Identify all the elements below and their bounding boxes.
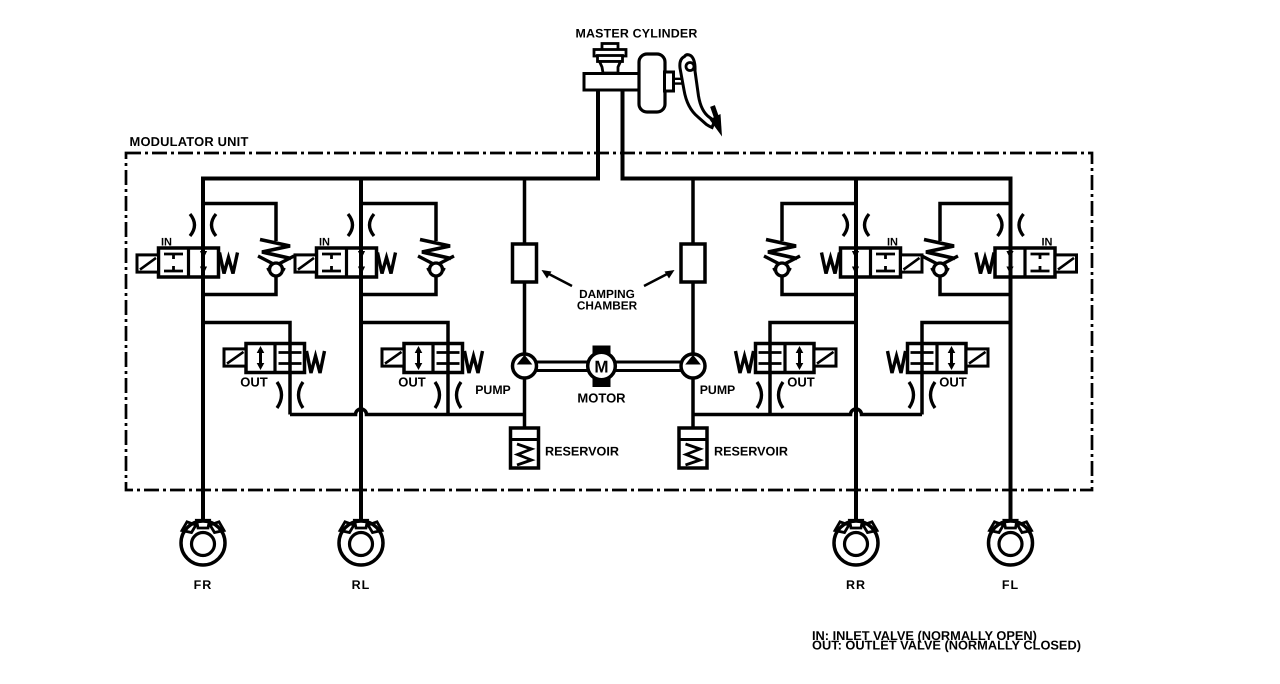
svg-text:RL: RL	[352, 578, 371, 592]
relief check valve with spring (FL)	[922, 240, 958, 277]
pipe: right return line with crossover hop	[693, 409, 922, 414]
pipe: master cylinder left outlet to left bus to FR wheel	[203, 89, 598, 519]
inlet solenoid valve IN-RL	[295, 248, 396, 277]
damping chamber left arrow	[542, 270, 573, 286]
label IN (IN-FL)	[1042, 237, 1053, 249]
svg-text:MODULATOR UNIT: MODULATOR UNIT	[130, 134, 249, 149]
motor M	[588, 346, 616, 388]
pipe: left pump to reservoir	[523, 372, 527, 428]
relief check valve with spring (RL)	[418, 240, 454, 277]
pipe: right damping/pump line	[691, 178, 695, 361]
pipe joint marks above IN-FL	[998, 214, 1024, 236]
svg-text:IN: IN	[161, 237, 172, 249]
label OUT (OUT-RL)	[398, 375, 426, 390]
reservoir right	[679, 428, 707, 468]
pipe joint marks above IN-FR	[190, 214, 216, 236]
label MASTER CYLINDER	[575, 27, 697, 41]
svg-text:FR: FR	[194, 578, 213, 592]
outlet solenoid valve OUT-FR	[224, 344, 325, 374]
pipe: RR inlet bypass loop	[782, 204, 856, 295]
svg-text:OUT: OUTLET VALVE (NORMALLY CL: OUT: OUTLET VALVE (NORMALLY CLOSED)	[812, 638, 1081, 653]
label OUT (OUT-FR)	[240, 375, 268, 390]
label RESERVOIR right	[714, 445, 788, 459]
svg-text:RESERVOIR: RESERVOIR	[714, 445, 788, 459]
label MOTOR	[577, 391, 626, 406]
pipe: left damping/pump line	[523, 178, 527, 361]
wheel brake FR	[181, 520, 225, 565]
svg-text:OUT: OUT	[398, 375, 426, 390]
pipe joint marks below OUT-FL	[909, 382, 935, 408]
relief check valve with spring (FR)	[258, 240, 294, 277]
pipe: FL inlet bypass loop	[940, 204, 1011, 295]
label IN (IN-FR)	[161, 237, 172, 249]
svg-text:RESERVOIR: RESERVOIR	[545, 445, 619, 459]
svg-text:MOTOR: MOTOR	[577, 391, 626, 406]
pipe joint marks above IN-RR	[843, 214, 869, 236]
pipe: RL outlet branch	[361, 323, 448, 415]
svg-text:IN: IN	[319, 237, 330, 249]
damping chamber right arrow	[644, 270, 675, 286]
label PUMP left	[475, 383, 511, 397]
pipe: RL circuit drop	[359, 179, 363, 520]
inlet solenoid valve IN-FL	[976, 248, 1077, 277]
wheel brake FL	[989, 520, 1033, 565]
master cylinder body with fluid reservoir	[584, 44, 639, 91]
label FR	[194, 578, 213, 592]
label MODULATOR UNIT	[130, 134, 249, 149]
pipe: FR inlet bypass loop	[203, 204, 276, 295]
label PUMP right	[700, 383, 736, 397]
modulator unit dashed enclosure	[126, 153, 1092, 490]
svg-text:OUT: OUT	[939, 375, 967, 390]
label DAMPING CHAMBER	[577, 287, 638, 313]
pipe: RR circuit drop	[854, 179, 858, 520]
outlet solenoid valve OUT-RR	[736, 344, 837, 374]
pipe: RR outlet branch	[770, 323, 856, 415]
wheel brake RR	[834, 520, 878, 565]
outlet solenoid valve OUT-FL	[888, 344, 989, 374]
relief check valve with spring (RR)	[764, 240, 800, 277]
pipe: FL outlet branch	[922, 323, 1011, 415]
svg-text:RR: RR	[846, 578, 866, 592]
pipe joint marks above IN-RL	[348, 214, 374, 236]
brake booster	[639, 54, 665, 112]
svg-text:M: M	[594, 358, 608, 377]
svg-text:FL: FL	[1002, 578, 1019, 592]
svg-text:IN: IN	[887, 237, 898, 249]
label OUT (OUT-FL)	[939, 375, 967, 390]
outlet solenoid valve OUT-RL	[382, 344, 483, 374]
pipe joint marks below OUT-RR	[757, 382, 783, 408]
brake pedal	[680, 55, 715, 128]
pipe: FR outlet branch	[203, 323, 290, 415]
pedal force arrow	[710, 106, 723, 137]
label OUT (OUT-RR)	[787, 375, 815, 390]
reservoir left	[511, 428, 539, 468]
label RESERVOIR left	[545, 445, 619, 459]
legend line 1	[812, 628, 1037, 643]
pipe: left return line with crossover hop	[290, 409, 525, 414]
svg-text:PUMP: PUMP	[475, 383, 511, 397]
pipe: master cylinder right outlet to right bus to FL wheel	[623, 89, 1011, 519]
motor shaft left	[537, 362, 589, 371]
svg-text:PUMP: PUMP	[700, 383, 736, 397]
pump left	[513, 354, 537, 378]
label RR	[846, 578, 866, 592]
pushrod block	[665, 72, 674, 91]
svg-text:OUT: OUT	[240, 375, 268, 390]
pushrod	[674, 79, 691, 84]
label FL	[1002, 578, 1019, 592]
label RL	[352, 578, 371, 592]
svg-text:OUT: OUT	[787, 375, 815, 390]
svg-text:MASTER CYLINDER: MASTER CYLINDER	[575, 27, 697, 41]
inlet solenoid valve IN-RR	[822, 248, 923, 277]
label IN (IN-RL)	[319, 237, 330, 249]
pipe: RL inlet bypass loop	[361, 204, 436, 295]
wheel brake RL	[339, 520, 383, 565]
pipe joint marks below OUT-RL	[435, 382, 461, 408]
motor shaft right	[615, 362, 681, 371]
svg-text:CHAMBER: CHAMBER	[577, 299, 638, 313]
damping chamber right	[681, 244, 705, 282]
svg-text:IN: IN	[1042, 237, 1053, 249]
damping chamber left	[513, 244, 537, 282]
pipe joint marks below OUT-FR	[277, 382, 303, 408]
pipe: right pump to reservoir	[691, 372, 695, 428]
label IN (IN-RR)	[887, 237, 898, 249]
pump right	[681, 354, 705, 378]
legend line 2	[812, 638, 1081, 653]
inlet solenoid valve IN-FR	[137, 248, 238, 277]
